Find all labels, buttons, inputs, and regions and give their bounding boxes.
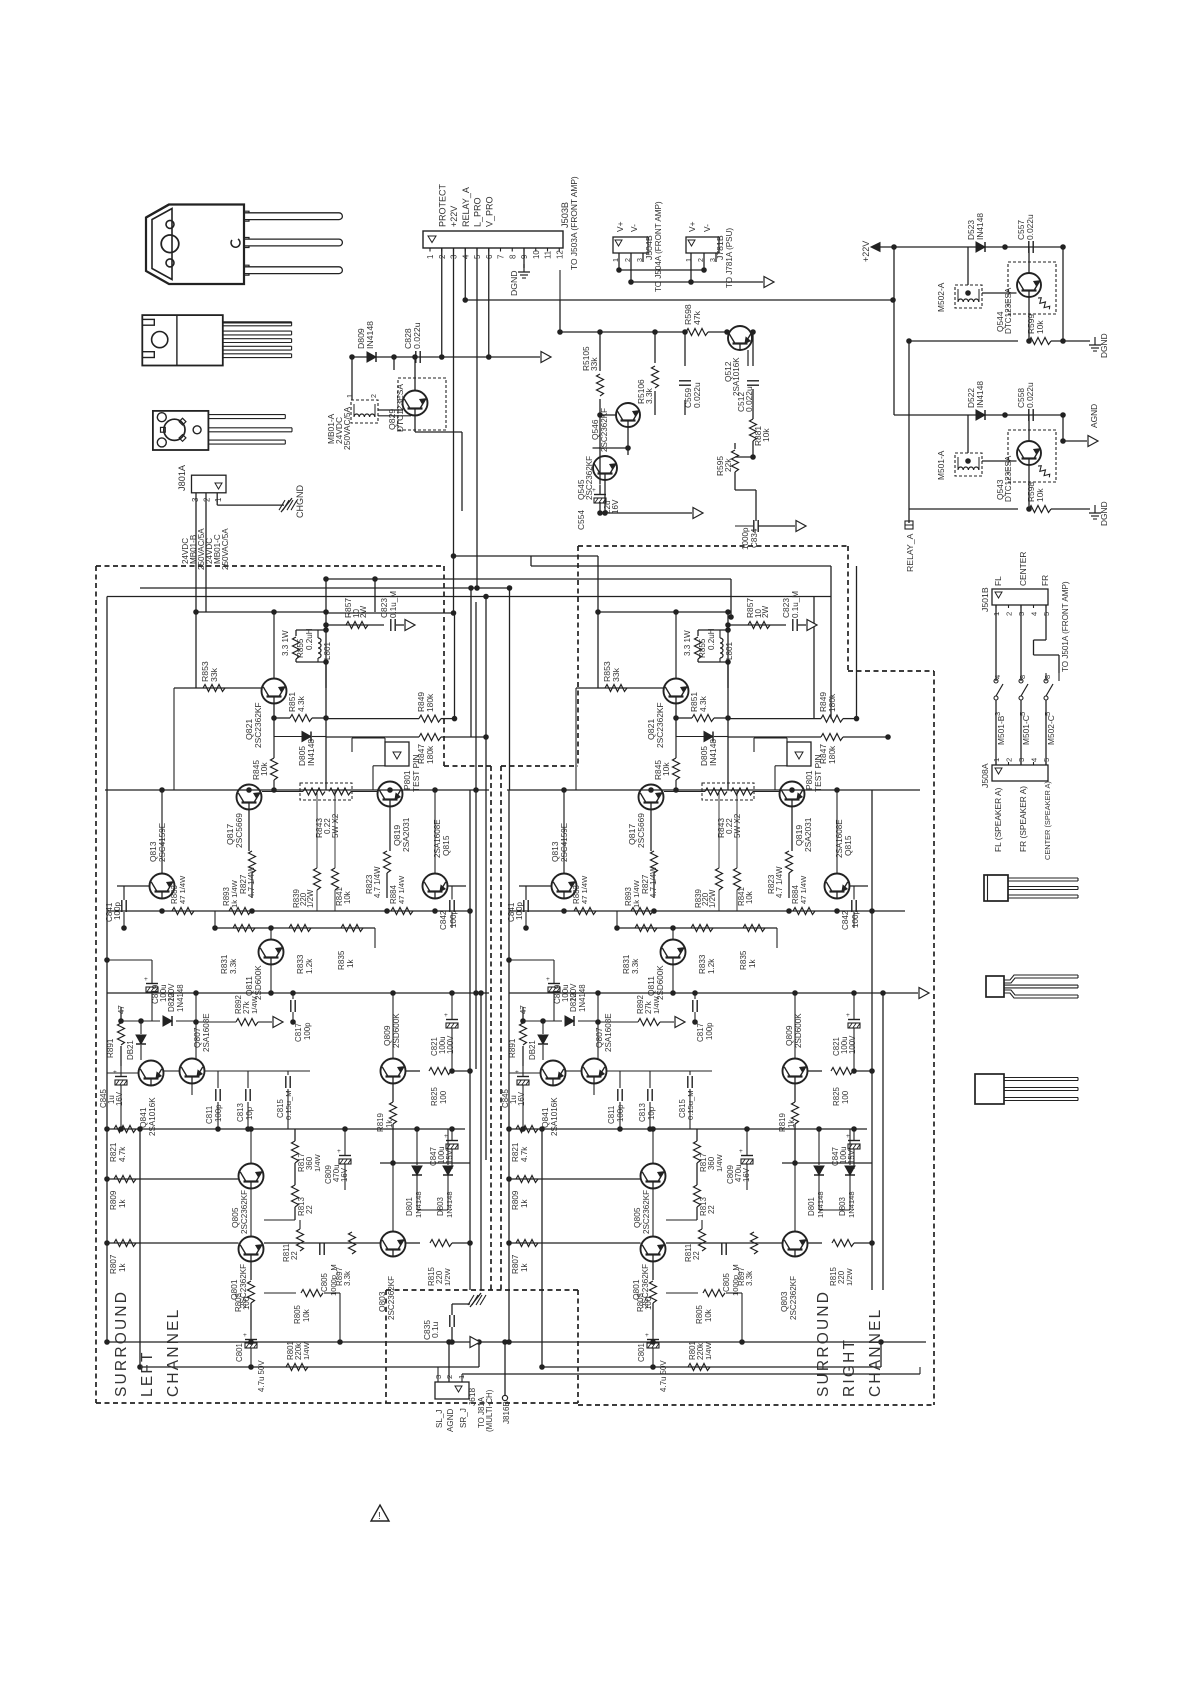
svg-text:0.022u: 0.022u — [412, 322, 422, 349]
svg-text:1k 1/4W: 1k 1/4W — [230, 879, 239, 908]
svg-text:33k: 33k — [589, 357, 599, 371]
svg-text:SURROUND: SURROUND — [815, 1290, 832, 1397]
svg-text:250VAC/5A: 250VAC/5A — [342, 406, 352, 450]
svg-text:C805: C805 — [320, 1273, 329, 1292]
svg-text:TO J504A (FRONT AMP): TO J504A (FRONT AMP) — [654, 201, 663, 292]
svg-text:J508A: J508A — [980, 763, 990, 788]
svg-text:1N4148: 1N4148 — [445, 1191, 454, 1218]
svg-text:+22V: +22V — [861, 241, 871, 262]
svg-text:RELAY_A: RELAY_A — [461, 187, 471, 227]
svg-text:V-: V- — [702, 224, 712, 232]
svg-text:1: 1 — [426, 255, 435, 259]
svg-text:4.7 1/4W: 4.7 1/4W — [373, 866, 382, 898]
svg-text:1N4148: 1N4148 — [414, 1191, 423, 1218]
svg-text:+: + — [243, 1332, 247, 1339]
svg-text:Q841: Q841 — [138, 1107, 148, 1128]
svg-text:M501-A: M501-A — [936, 450, 946, 480]
svg-text:8: 8 — [1043, 675, 1052, 679]
svg-text:D801: D801 — [405, 1197, 414, 1216]
svg-text:8: 8 — [508, 254, 517, 259]
svg-text:R831: R831 — [220, 954, 229, 974]
svg-text:1/2W: 1/2W — [306, 889, 315, 908]
svg-text:4.7u 50V: 4.7u 50V — [257, 1360, 266, 1392]
svg-text:15V: 15V — [445, 1149, 454, 1164]
svg-text:22: 22 — [305, 1205, 314, 1214]
svg-text:+: + — [337, 1148, 341, 1155]
svg-text:2SC2362KF: 2SC2362KF — [253, 702, 263, 748]
svg-text:2SC5669: 2SC5669 — [234, 813, 244, 848]
svg-text:2SC2362KF: 2SC2362KF — [240, 1190, 249, 1234]
svg-text:4.7 1/4W: 4.7 1/4W — [247, 866, 256, 898]
svg-text:TO J503A (FRONT AMP): TO J503A (FRONT AMP) — [569, 176, 579, 270]
svg-text:IN4148: IN4148 — [975, 381, 985, 408]
svg-text:47 1/4W: 47 1/4W — [397, 875, 406, 904]
svg-text:0.022u: 0.022u — [1025, 382, 1035, 408]
svg-text:C823: C823 — [379, 598, 389, 618]
svg-text:3.3k: 3.3k — [644, 387, 654, 404]
svg-text:100p: 100p — [214, 1104, 223, 1122]
svg-text:R809: R809 — [109, 1190, 118, 1210]
svg-text:IN4148: IN4148 — [365, 321, 375, 349]
svg-text:47: 47 — [117, 1005, 126, 1014]
svg-text:3.3k: 3.3k — [229, 958, 238, 974]
svg-text:R855: R855 — [296, 638, 305, 658]
svg-text:FR (SPEAKER A): FR (SPEAKER A) — [1018, 786, 1028, 852]
svg-text:2SA1608E: 2SA1608E — [202, 1013, 211, 1052]
svg-text:16V: 16V — [115, 1091, 124, 1106]
svg-text:TEST PIN: TEST PIN — [411, 754, 421, 792]
svg-text:0.022u: 0.022u — [1025, 214, 1035, 240]
svg-text:CHANNEL: CHANNEL — [867, 1308, 884, 1397]
svg-text:V_PRO: V_PRO — [484, 196, 494, 227]
svg-text:Q809: Q809 — [382, 1025, 392, 1046]
svg-text:SL_J: SL_J — [435, 1410, 444, 1428]
svg-text:22: 22 — [290, 1251, 299, 1260]
svg-text:Q807: Q807 — [192, 1027, 202, 1048]
svg-text:SR_J: SR_J — [459, 1408, 468, 1428]
svg-text:47k: 47k — [692, 310, 702, 325]
svg-text:100p: 100p — [303, 1022, 312, 1040]
svg-text:D822: D822 — [167, 993, 176, 1012]
svg-text:J801A: J801A — [177, 464, 187, 491]
svg-text:3.3 1W: 3.3 1W — [281, 630, 290, 656]
svg-text:1: 1 — [214, 498, 223, 502]
svg-text:4: 4 — [1030, 758, 1039, 762]
svg-text:3.3k: 3.3k — [343, 1271, 352, 1286]
svg-text:CHANNEL: CHANNEL — [165, 1308, 182, 1397]
svg-text:C554: C554 — [576, 510, 586, 530]
svg-text:V+: V+ — [687, 221, 697, 232]
svg-text:FL: FL — [993, 576, 1003, 586]
svg-text:SURROUND: SURROUND — [113, 1290, 130, 1397]
svg-text:1/4W: 1/4W — [313, 1153, 322, 1172]
svg-text:180k: 180k — [425, 693, 435, 712]
svg-text:!: ! — [378, 1511, 381, 1522]
svg-text:R821: R821 — [109, 1142, 118, 1162]
svg-text:TO J781A (PSU): TO J781A (PSU) — [725, 228, 734, 288]
svg-text:47 1/4W: 47 1/4W — [178, 875, 187, 904]
svg-text:1k: 1k — [346, 958, 355, 968]
svg-text:DTC123ESA: DTC123ESA — [1004, 287, 1013, 334]
svg-text:5W X2: 5W X2 — [331, 813, 340, 838]
svg-text:1/4W: 1/4W — [302, 1341, 311, 1360]
svg-text:250VAC/5A: 250VAC/5A — [221, 528, 230, 570]
svg-text:R807: R807 — [109, 1254, 118, 1274]
svg-text:0.022u: 0.022u — [744, 386, 754, 412]
svg-text:C834: C834 — [750, 528, 759, 548]
svg-text:TO J501A (FRONT AMP): TO J501A (FRONT AMP) — [1061, 581, 1070, 672]
svg-text:2SA1016K: 2SA1016K — [148, 1097, 157, 1136]
svg-text:7: 7 — [497, 255, 506, 259]
svg-text:3: 3 — [1017, 758, 1026, 762]
svg-text:1k: 1k — [118, 1262, 127, 1272]
svg-text:+: + — [592, 487, 596, 494]
svg-text:100: 100 — [439, 1090, 448, 1104]
svg-text:DGND: DGND — [509, 270, 519, 296]
svg-text:3: 3 — [993, 712, 1002, 716]
svg-text:2SD600K: 2SD600K — [254, 965, 263, 1000]
svg-text:CHGND: CHGND — [295, 485, 305, 518]
svg-text:R835: R835 — [337, 950, 346, 970]
svg-text:R805: R805 — [293, 1305, 302, 1324]
svg-text:AGND: AGND — [1089, 404, 1099, 428]
svg-text:11: 11 — [544, 251, 553, 259]
svg-text:10k: 10k — [761, 428, 771, 442]
svg-text:10k: 10k — [302, 1309, 311, 1322]
svg-text:DB21: DB21 — [126, 1040, 135, 1060]
svg-text:180k: 180k — [425, 745, 435, 764]
svg-text:DTC123ESA: DTC123ESA — [395, 384, 405, 432]
svg-text:J816B: J816B — [502, 1401, 511, 1424]
svg-text:PROTECT: PROTECT — [437, 183, 447, 227]
svg-text:1/4W: 1/4W — [250, 995, 259, 1014]
svg-text:12: 12 — [555, 250, 564, 259]
svg-text:DGND: DGND — [1099, 333, 1109, 358]
svg-text:0.022u: 0.022u — [692, 382, 702, 408]
svg-text:CENTER (SPEAKER A): CENTER (SPEAKER A) — [1043, 781, 1052, 860]
svg-text:1N4148: 1N4148 — [176, 984, 185, 1012]
svg-text:10k: 10k — [343, 891, 352, 904]
svg-text:R833: R833 — [296, 954, 305, 974]
svg-text:V-: V- — [629, 224, 639, 232]
svg-text:C811: C811 — [205, 1106, 214, 1124]
svg-text:(MULTI-CH): (MULTI-CH) — [485, 1389, 494, 1432]
svg-text:1: 1 — [684, 258, 693, 262]
svg-text:10k: 10k — [1035, 488, 1045, 502]
svg-text:1k: 1k — [118, 1198, 127, 1208]
svg-text:1k: 1k — [385, 1120, 394, 1128]
svg-text:2SA1016K: 2SA1016K — [732, 357, 741, 396]
svg-text:5: 5 — [1042, 758, 1051, 762]
svg-text:C817: C817 — [294, 1023, 303, 1042]
svg-text:+: + — [144, 976, 148, 983]
svg-text:RELAY_A: RELAY_A — [905, 533, 915, 572]
svg-text:M501-B: M501-B — [996, 715, 1006, 745]
svg-text:2SA2031: 2SA2031 — [401, 817, 411, 852]
svg-text:AGND: AGND — [446, 1408, 455, 1432]
svg-text:C801: C801 — [235, 1343, 244, 1362]
svg-text:J501B: J501B — [980, 587, 990, 612]
svg-text:1: 1 — [345, 394, 354, 398]
svg-text:J618: J618 — [467, 1387, 477, 1406]
svg-text:DTC123ESA: DTC123ESA — [1004, 455, 1013, 502]
svg-text:1/2W: 1/2W — [443, 1267, 452, 1286]
svg-text:16V: 16V — [340, 1167, 349, 1182]
svg-text:J504B: J504B — [644, 235, 654, 260]
svg-text:C813: C813 — [236, 1103, 245, 1122]
svg-text:2SC2362KF: 2SC2362KF — [387, 1276, 396, 1320]
svg-text:L801: L801 — [323, 641, 332, 660]
svg-text:CENTER: CENTER — [1018, 552, 1028, 586]
svg-text:2: 2 — [203, 498, 212, 502]
svg-text:LEFT: LEFT — [139, 1350, 156, 1397]
svg-text:0.1u_M: 0.1u_M — [389, 591, 398, 618]
svg-text:Q805: Q805 — [230, 1207, 240, 1228]
svg-text:4: 4 — [993, 675, 1002, 679]
svg-text:10p: 10p — [245, 1106, 254, 1120]
svg-text:100V: 100V — [446, 1035, 455, 1054]
svg-text:FL (SPEAKER A): FL (SPEAKER A) — [993, 787, 1003, 852]
svg-text:4: 4 — [1030, 612, 1039, 616]
svg-text:0.2uH: 0.2uH — [305, 628, 314, 650]
svg-text:C842: C842 — [439, 910, 448, 930]
svg-text:DGND: DGND — [1099, 501, 1109, 526]
svg-text:Q815: Q815 — [441, 835, 451, 856]
svg-text:M502-A: M502-A — [936, 282, 946, 312]
svg-text:IN4148: IN4148 — [975, 213, 985, 240]
svg-text:RIGHT: RIGHT — [841, 1338, 858, 1397]
svg-text:0.15u_M: 0.15u_M — [284, 1090, 293, 1120]
svg-text:M502-C: M502-C — [1046, 715, 1056, 745]
svg-text:2: 2 — [369, 394, 378, 398]
svg-text:FR: FR — [1040, 575, 1050, 586]
svg-text:+: + — [444, 1133, 448, 1140]
svg-text:2: 2 — [1005, 612, 1014, 616]
svg-text:2: 2 — [1005, 758, 1014, 762]
svg-text:100p: 100p — [449, 909, 458, 928]
svg-text:R825: R825 — [430, 1087, 439, 1106]
svg-text:8: 8 — [1018, 675, 1027, 679]
svg-text:1: 1 — [992, 758, 1001, 762]
svg-text:+22V: +22V — [449, 206, 459, 227]
svg-text:2W: 2W — [359, 605, 368, 618]
svg-text:100: 100 — [242, 1296, 251, 1310]
svg-text:V+: V+ — [615, 221, 625, 232]
svg-text:D803: D803 — [436, 1197, 445, 1216]
svg-text:M501-C: M501-C — [1021, 715, 1031, 745]
svg-text:0.1u: 0.1u — [430, 1321, 440, 1338]
svg-text:L_PRO: L_PRO — [473, 197, 483, 227]
svg-text:1.2k: 1.2k — [305, 958, 314, 974]
svg-text:33k: 33k — [209, 667, 219, 682]
svg-text:16V: 16V — [611, 499, 620, 514]
svg-text:10k: 10k — [259, 762, 269, 776]
svg-text:10k: 10k — [1035, 320, 1045, 334]
svg-text:22k: 22k — [723, 458, 733, 472]
svg-text:Q813: Q813 — [148, 841, 158, 862]
svg-text:IN4148: IN4148 — [306, 739, 316, 766]
svg-text:4.7k: 4.7k — [118, 1146, 127, 1162]
svg-text:4.3k: 4.3k — [296, 695, 306, 712]
svg-text:Q546: Q546 — [590, 419, 600, 440]
svg-text:+: + — [444, 1012, 448, 1019]
